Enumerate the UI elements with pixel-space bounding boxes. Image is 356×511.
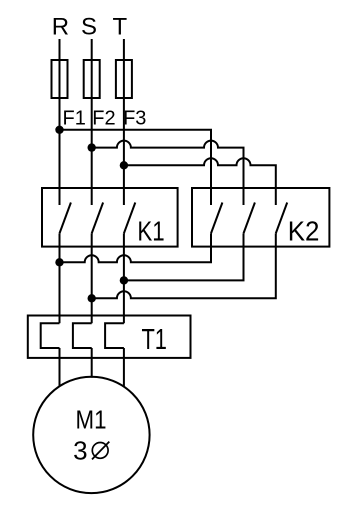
fuse F1 <box>52 60 68 98</box>
wire T1 to motor phase R <box>59 348 61 386</box>
junction node R-out <box>55 258 63 266</box>
phase symbol slash <box>92 442 109 460</box>
contactor K1 box <box>42 188 178 247</box>
junction node T branch <box>120 161 128 169</box>
junction node R branch <box>55 126 63 134</box>
wire K2 pole 2 output to node T-out (crossover line 5) <box>124 233 244 280</box>
junction node S branch <box>88 143 96 151</box>
wire K1 pole 2 output <box>91 233 93 323</box>
contact K2 pole 2 blade <box>244 203 255 234</box>
fuse F2 <box>84 60 100 98</box>
heater element T1 phase R <box>41 323 60 348</box>
contact K1 pole 2 blade <box>92 203 103 234</box>
svg-text:M1: M1 <box>76 405 107 435</box>
svg-text:R: R <box>52 13 69 40</box>
svg-text:T1: T1 <box>141 324 167 356</box>
phase symbol circle <box>92 443 108 459</box>
overload relay T1 box <box>28 316 191 358</box>
heater element T1 phase S <box>73 323 92 348</box>
contact K1 pole 3 blade <box>124 203 135 234</box>
fuse F3 <box>116 60 132 98</box>
wire K2 pole 3 output to node S-out (crossover line 6 with hop) <box>92 233 276 298</box>
contact K1 pole 1 blade <box>60 203 71 234</box>
contactor K2 box <box>192 188 329 247</box>
contact K2 pole 1 blade <box>211 203 222 234</box>
motor M1 circle <box>33 377 149 493</box>
svg-text:F3: F3 <box>123 108 146 130</box>
wire T1 to motor phase T <box>123 348 125 387</box>
wire K2 pole 1 output to node R-out (crossover line 4 with hops) <box>60 233 212 262</box>
svg-text:3: 3 <box>73 435 87 465</box>
wire K1 pole 1 output <box>59 233 61 323</box>
svg-text:F1: F1 <box>63 108 86 130</box>
wire T1 to motor phase S <box>91 348 93 378</box>
svg-text:T: T <box>112 13 127 40</box>
svg-text:S: S <box>81 13 97 40</box>
svg-text:K2: K2 <box>288 216 320 247</box>
junction node T-out <box>120 276 128 284</box>
contact K2 pole 3 blade <box>276 203 287 234</box>
wire R branch to K2 pole 1 (crossover line 1) <box>60 130 212 205</box>
wire T branch to K2 pole 3 (crossover line 3 with hops) <box>124 158 276 205</box>
wire phase T vertical (T input to K1 pole 3) <box>123 39 125 205</box>
svg-text:F2: F2 <box>92 108 115 130</box>
wire S branch to K2 pole 2 (crossover line 2 with hops) <box>92 141 244 205</box>
wire phase S vertical (S input to K1 pole 2) <box>91 39 93 205</box>
wire phase R vertical (R input to K1 pole 1) <box>59 39 61 205</box>
svg-text:K1: K1 <box>137 216 164 247</box>
heater element T1 phase T <box>105 323 124 348</box>
junction node S-out <box>88 294 96 302</box>
wire K1 pole 3 output <box>123 233 125 323</box>
